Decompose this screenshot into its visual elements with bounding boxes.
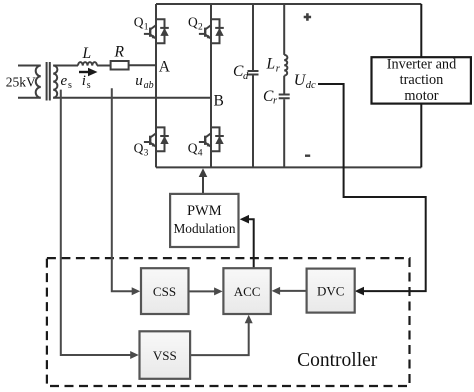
svg-text:d: d [243, 71, 249, 82]
svg-text:s: s [68, 80, 72, 91]
svg-text:r: r [276, 63, 281, 74]
svg-text:VSS: VSS [153, 348, 177, 363]
svg-text:i: i [82, 73, 86, 89]
svg-text:L: L [82, 45, 92, 62]
svg-text:2: 2 [198, 23, 203, 33]
svg-text:4: 4 [198, 149, 203, 159]
svg-text:ACC: ACC [234, 284, 261, 299]
svg-text:traction: traction [400, 72, 444, 88]
svg-text:3: 3 [144, 149, 149, 159]
svg-text:Modulation: Modulation [173, 221, 235, 236]
svg-text:PWM: PWM [187, 203, 222, 219]
svg-text:A: A [159, 58, 171, 75]
svg-text:Inverter and: Inverter and [387, 57, 456, 73]
svg-text:25kV: 25kV [6, 75, 36, 90]
svg-text:L: L [266, 56, 276, 73]
svg-text:e: e [61, 73, 68, 89]
svg-text:Controller: Controller [297, 350, 378, 371]
svg-text:Q: Q [134, 141, 144, 156]
svg-text:Q: Q [188, 141, 198, 156]
svg-text:u: u [135, 73, 143, 89]
svg-text:dc: dc [306, 80, 316, 91]
svg-text:DVC: DVC [317, 283, 344, 298]
svg-text:Q: Q [134, 15, 144, 30]
svg-text:r: r [273, 96, 278, 107]
svg-text:1: 1 [144, 23, 149, 33]
svg-text:Q: Q [188, 15, 198, 30]
svg-text:ab: ab [144, 80, 154, 91]
svg-text:motor: motor [404, 88, 438, 104]
svg-text:s: s [87, 80, 91, 91]
svg-text:CSS: CSS [153, 284, 176, 299]
svg-text:B: B [214, 93, 224, 110]
svg-text:R: R [114, 44, 125, 61]
